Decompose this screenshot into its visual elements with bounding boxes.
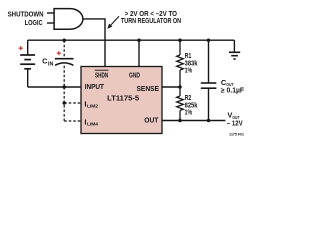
svg-text:– 12V: – 12V	[227, 121, 243, 128]
svg-text:R2: R2	[185, 95, 192, 102]
svg-text:TURN REGULATOR ON: TURN REGULATOR ON	[121, 18, 181, 25]
ground symbol (top right)	[229, 40, 240, 59]
label COUT and value	[221, 78, 245, 95]
label R1 383k 1%	[185, 53, 198, 74]
svg-text:1%: 1%	[185, 68, 193, 75]
svg-text:OUT: OUT	[144, 116, 159, 125]
regulator U1 LT1175-5 body	[81, 67, 162, 134]
label CIN	[42, 56, 54, 67]
svg-text:825k: 825k	[185, 102, 198, 109]
junction dot: COUT top at rail	[207, 38, 211, 42]
svg-text:INPUT: INPUT	[85, 82, 105, 91]
svg-text:GND: GND	[129, 70, 140, 79]
pin label ILIM4	[84, 117, 98, 127]
wire: SENSE pin to divider tap	[162, 86, 180, 88]
svg-text:LIM2: LIM2	[87, 103, 98, 109]
junction dot: CIN top at ground rail	[62, 38, 66, 42]
svg-text:LT1175-5: LT1175-5	[107, 94, 139, 103]
label R2 825k 1%	[185, 95, 198, 116]
annotation arrow to SHDN wire	[110, 16, 119, 26]
junction dot: GND pin at rail	[137, 38, 141, 42]
CIN plus polarity mark	[57, 51, 61, 55]
battery (input source)	[20, 40, 35, 87]
wire: dashed to ILIM2 pin	[64, 102, 81, 104]
svg-text:SENSE: SENSE	[137, 84, 160, 93]
wire: gate output to SHDN pin	[83, 19, 105, 67]
label VOUT	[227, 110, 239, 120]
svg-text:> 2V OR < –2V TO: > 2V OR < –2V TO	[125, 11, 178, 18]
wire: dashed to ILIM4 pin	[64, 120, 81, 122]
svg-text:LOGIC: LOGIC	[25, 20, 43, 27]
junction dot: ILIM2 tap	[62, 101, 66, 105]
svg-text:383k: 383k	[185, 60, 198, 67]
battery plus polarity mark	[19, 46, 23, 50]
svg-text:C: C	[42, 56, 47, 65]
wire: battery negative to INPUT pin	[28, 86, 81, 88]
junction dot: R2 bottom at output	[178, 119, 182, 123]
svg-text:SHUTDOWN: SHUTDOWN	[8, 11, 44, 18]
resistor R1	[177, 40, 184, 87]
wire: OUT pin to output node	[162, 120, 225, 122]
pin label ILIM2	[84, 99, 98, 109]
svg-text:SHDN: SHDN	[95, 70, 108, 79]
svg-text:LIM4: LIM4	[87, 121, 98, 127]
junction dot: CIN bottom at input wire	[62, 85, 66, 89]
wire: GND pin to ground rail	[138, 40, 140, 66]
junction dot: COUT bottom at output	[207, 119, 211, 123]
wire: top ground rail	[28, 39, 235, 41]
svg-text:≥ 0.1µF: ≥ 0.1µF	[221, 87, 245, 94]
junction dot: divider tap at SENSE	[178, 85, 182, 89]
svg-text:1175 F01: 1175 F01	[229, 132, 244, 136]
svg-text:IN: IN	[48, 62, 54, 68]
resistor R2	[177, 87, 184, 121]
junction dot: R1 top at rail	[178, 38, 182, 42]
capacitor COUT	[201, 40, 217, 120]
AND gate (shutdown logic drive)	[47, 9, 83, 30]
svg-text:1%: 1%	[185, 110, 193, 117]
pin label SHDN (with overline)	[95, 70, 109, 79]
svg-text:R1: R1	[185, 53, 192, 60]
capacitor CIN (dashed optional connection)	[55, 40, 74, 87]
wire: dashed from input node down to ILIM pins	[63, 87, 65, 121]
